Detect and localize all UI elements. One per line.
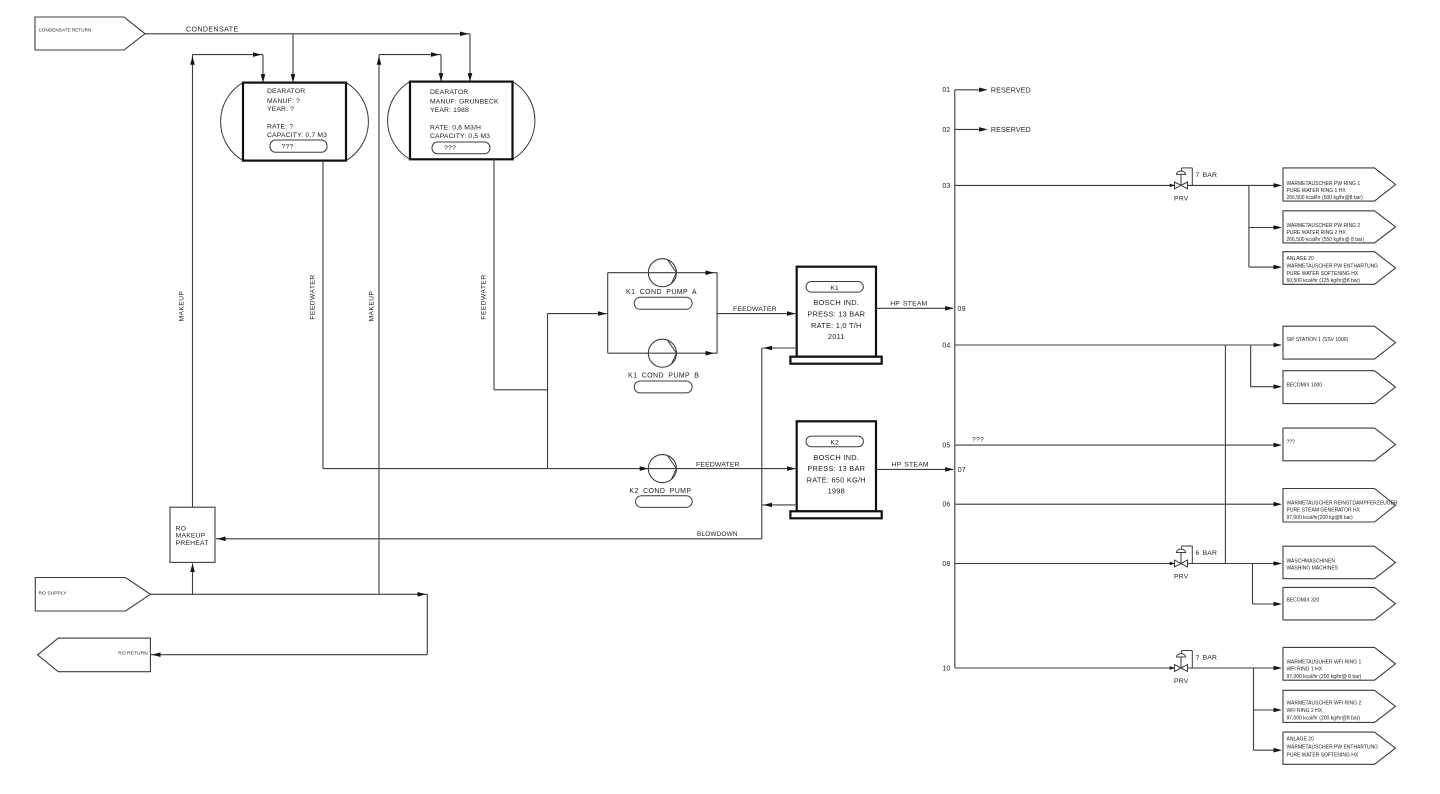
- svg-text:PREHEAT: PREHEAT: [176, 540, 209, 547]
- svg-text:PURE WATER SOFTENING HX: PURE WATER SOFTENING HX: [1287, 752, 1359, 758]
- svg-text:07: 07: [958, 467, 966, 474]
- svg-text:???: ???: [972, 436, 984, 443]
- svg-text:CAPACITY: 0,7 M3: CAPACITY: 0,7 M3: [267, 132, 327, 139]
- svg-text:03: 03: [942, 183, 950, 190]
- svg-text:MANUF: GRUNBECK: MANUF: GRUNBECK: [430, 98, 499, 105]
- svg-text:DEARATOR: DEARATOR: [267, 88, 305, 95]
- svg-text:CONDENSATE RETURN: CONDENSATE RETURN: [39, 28, 92, 33]
- svg-text:HP STEAM: HP STEAM: [890, 300, 927, 307]
- svg-text:RATE: ?: RATE: ?: [267, 124, 293, 131]
- svg-text:RATE: 650 KG/H: RATE: 650 KG/H: [807, 475, 866, 484]
- svg-text:HP STEAM: HP STEAM: [892, 462, 929, 469]
- svg-text:WARMETAUSCHER PW ENTHARTUNG: WARMETAUSCHER PW ENTHARTUNG: [1287, 264, 1379, 270]
- svg-text:SIP STATION 1 (SSV 1000): SIP STATION 1 (SSV 1000): [1287, 337, 1349, 343]
- svg-text:WARMETAUSCHER REINSTDAMPFERZEU: WARMETAUSCHER REINSTDAMPFERZEUGER: [1287, 500, 1399, 506]
- svg-text:PRV: PRV: [1174, 196, 1189, 203]
- svg-text:BOSCH IND.: BOSCH IND.: [813, 298, 859, 307]
- svg-text:YEAR: 1988: YEAR: 1988: [430, 107, 469, 114]
- svg-text:MAKEUP: MAKEUP: [179, 290, 186, 321]
- svg-text:PURE WATER RING 1 HX: PURE WATER RING 1 HX: [1287, 188, 1347, 194]
- svg-text:1998: 1998: [828, 487, 845, 496]
- svg-text:MANUF: ?: MANUF: ?: [267, 98, 300, 105]
- svg-text:60,500 kcal/hr (125 kg/hr@8 ba: 60,500 kcal/hr (125 kg/hr@8 bar): [1287, 278, 1361, 284]
- svg-text:10: 10: [942, 665, 950, 672]
- svg-text:BOSCH IND.: BOSCH IND.: [813, 453, 859, 462]
- svg-text:97,000 kcal/hr (200 kg/hr@ 8 b: 97,000 kcal/hr (200 kg/hr@ 8 bar): [1287, 674, 1362, 680]
- svg-text:BECOMIX 1000: BECOMIX 1000: [1287, 383, 1323, 389]
- svg-text:97,000 kcal/hr (200 kg/hr@8 ba: 97,000 kcal/hr (200 kg/hr@8 bar): [1287, 715, 1361, 721]
- svg-text:RATE: 0,6 M3/H: RATE: 0,6 M3/H: [430, 125, 481, 132]
- svg-text:01: 01: [942, 87, 950, 94]
- svg-text:FEEDWATER: FEEDWATER: [481, 274, 488, 319]
- svg-text:ANLAGE 20: ANLAGE 20: [1287, 737, 1314, 743]
- svg-text:WARMETAUSCHER PW RING 1: WARMETAUSCHER PW RING 1: [1287, 181, 1361, 187]
- svg-text:? BAR: ? BAR: [1196, 655, 1218, 662]
- svg-text:PURE STEAM GENERATOR HX: PURE STEAM GENERATOR HX: [1287, 508, 1361, 514]
- svg-text:PURE WATER SOFTENING HX: PURE WATER SOFTENING HX: [1287, 271, 1359, 277]
- svg-text:2011: 2011: [828, 332, 845, 341]
- svg-text:PRESS: 13 BAR: PRESS: 13 BAR: [807, 310, 865, 319]
- svg-text:BECOMIX 320: BECOMIX 320: [1287, 598, 1320, 604]
- svg-text:WARMETAUSUHER WFI RING 1: WARMETAUSUHER WFI RING 1: [1287, 659, 1362, 665]
- svg-text:YEAR: ?: YEAR: ?: [267, 106, 294, 113]
- svg-text:WASCHMASCHINEN: WASCHMASCHINEN: [1287, 558, 1336, 564]
- svg-text:97,000 kcal/hr(200 kg@8 bar): 97,000 kcal/hr(200 kg@8 bar): [1287, 515, 1354, 521]
- svg-text:WARMETAUSCHER PW RING 2: WARMETAUSCHER PW RING 2: [1287, 223, 1361, 229]
- svg-text:05: 05: [942, 443, 950, 450]
- svg-text:BLOWDOWN: BLOWDOWN: [697, 531, 738, 538]
- svg-text:RATE: 1,0 T/H: RATE: 1,0 T/H: [811, 321, 862, 330]
- svg-text:266,500 kcal/hr (500 kg/hr@8 b: 266,500 kcal/hr (500 kg/hr@8 bar): [1287, 195, 1364, 201]
- svg-text:06: 06: [942, 502, 950, 509]
- svg-text:???: ???: [282, 144, 294, 151]
- svg-text:RO SUPPLY: RO SUPPLY: [39, 590, 68, 596]
- svg-text:K1: K1: [830, 285, 839, 292]
- svg-text:FEEDWATER: FEEDWATER: [696, 461, 740, 468]
- svg-text:09: 09: [958, 306, 966, 313]
- svg-text:08: 08: [942, 561, 950, 568]
- svg-text:FEEDWATER: FEEDWATER: [309, 274, 316, 319]
- svg-text:RESERVED: RESERVED: [991, 127, 1031, 134]
- svg-text:CAPACITY: 0,5 M3: CAPACITY: 0,5 M3: [430, 133, 490, 140]
- svg-text:RESERVED: RESERVED: [991, 87, 1031, 94]
- svg-text:WARMETAUSCHER WFI RING 2: WARMETAUSCHER WFI RING 2: [1287, 700, 1362, 706]
- svg-text:RO RETURN: RO RETURN: [118, 651, 148, 657]
- svg-text:7 BAR: 7 BAR: [1196, 172, 1218, 179]
- svg-text:MAKEUP: MAKEUP: [176, 533, 206, 540]
- svg-text:PRESS: 13 BAR: PRESS: 13 BAR: [807, 464, 865, 473]
- svg-text:WFI RING 1 HX: WFI RING 1 HX: [1287, 666, 1323, 672]
- svg-text:RO: RO: [176, 525, 187, 532]
- svg-text:ANLAGE 20: ANLAGE 20: [1287, 256, 1314, 262]
- svg-text:K2: K2: [830, 440, 839, 447]
- svg-text:???: ???: [444, 145, 456, 152]
- svg-text:266,500 kcal/hr (550 kg/hr@ 8: 266,500 kcal/hr (550 kg/hr@ 8 bar): [1287, 237, 1365, 243]
- svg-text:CONDENSATE: CONDENSATE: [186, 26, 239, 33]
- svg-text:PRV: PRV: [1174, 574, 1189, 581]
- svg-text:02: 02: [942, 127, 950, 134]
- svg-text:WASHING MACHINES: WASHING MACHINES: [1287, 565, 1339, 571]
- svg-text:MAKEUP: MAKEUP: [369, 290, 376, 321]
- svg-text:DEARATOR: DEARATOR: [430, 89, 468, 96]
- svg-text:K1 COND PUMP B: K1 COND PUMP B: [628, 373, 699, 380]
- svg-text:???: ???: [1287, 439, 1296, 445]
- svg-text:6 BAR: 6 BAR: [1196, 550, 1218, 557]
- svg-text:FEEDWATER: FEEDWATER: [733, 306, 777, 313]
- svg-text:WARMETAUSCHER PW ENTHARTUNG: WARMETAUSCHER PW ENTHARTUNG: [1287, 745, 1379, 751]
- svg-text:K1 COND PUMP A: K1 COND PUMP A: [626, 289, 697, 296]
- svg-text:K2 COND PUMP: K2 COND PUMP: [629, 488, 691, 495]
- svg-text:04: 04: [942, 342, 950, 349]
- svg-text:PRV: PRV: [1174, 678, 1189, 685]
- svg-text:PURE WATER RING 2 HX: PURE WATER RING 2 HX: [1287, 230, 1347, 236]
- svg-text:WFI RING 2 HX: WFI RING 2 HX: [1287, 708, 1323, 714]
